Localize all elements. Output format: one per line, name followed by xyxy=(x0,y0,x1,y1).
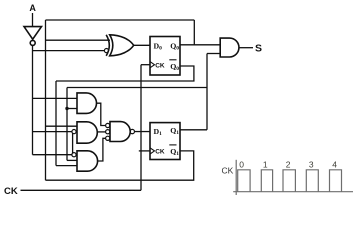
wire CK vertical bus xyxy=(140,65,142,191)
wire Q0 feedback riser xyxy=(193,20,195,45)
wire Q0bar to AND G3 bottom input xyxy=(56,165,77,167)
flip-flop U1 box xyxy=(150,37,180,76)
wire AND G3 output to NAND xyxy=(98,138,106,161)
wire bubble chain G2 to G3 xyxy=(72,133,74,154)
clock pulse 4 xyxy=(330,170,342,192)
wire to output AND lower input xyxy=(207,53,220,55)
bubble on G3 top input xyxy=(72,153,76,157)
bubble G4 input a xyxy=(106,123,110,127)
xor gate U4 xyxy=(106,35,109,56)
wire feedback to XOR upper input xyxy=(46,39,111,41)
wire to AND G2 top input xyxy=(46,125,78,127)
wire output S xyxy=(239,47,253,49)
svg-text:0: 0 xyxy=(239,160,244,170)
svg-text:Q0: Q0 xyxy=(170,62,179,72)
svg-text:Q1: Q1 xyxy=(170,147,179,157)
bubble on XOR lower input xyxy=(104,49,108,53)
wire NAND output to D1 xyxy=(135,131,150,133)
clock pulse 1 xyxy=(261,170,272,192)
wire CK to flip-flop U1 xyxy=(141,64,150,66)
svg-text:Q1: Q1 xyxy=(170,126,179,136)
svg-text:Q0: Q0 xyxy=(170,41,179,51)
timing baseline xyxy=(233,191,353,193)
wire CK to flip-flop U2 xyxy=(139,150,150,152)
wire AND G2 output to NAND xyxy=(97,131,105,133)
wire Q1 vertical bus xyxy=(66,88,68,161)
wire A input stem xyxy=(32,13,34,27)
svg-text:S: S xyxy=(255,43,262,55)
svg-text:CK: CK xyxy=(155,149,165,156)
wire Q1 vertical to output AND xyxy=(206,54,208,130)
clock triangle U1 xyxy=(150,62,155,68)
svg-text:CK: CK xyxy=(222,166,234,176)
wire Q0bar vertical bus xyxy=(55,81,57,166)
and gate G3 xyxy=(77,151,98,171)
timing axis vertical xyxy=(235,160,237,195)
wire Q0 feedback vertical bus xyxy=(45,20,47,180)
svg-text:A: A xyxy=(29,3,36,13)
clock pulse 0 xyxy=(238,170,250,192)
flip-flop U2 box xyxy=(150,123,180,160)
svg-text:CK: CK xyxy=(155,62,165,69)
svg-text:2: 2 xyxy=(286,160,291,170)
and gate G5 output S xyxy=(220,38,239,57)
wire Q1bar from flip-flop U2 xyxy=(46,151,194,180)
wire Q1 horizontal run xyxy=(67,87,207,89)
wire Abar to AND G2 bottom input xyxy=(33,131,72,133)
wire Q1 output from flip-flop U2 xyxy=(180,129,207,131)
svg-text:4: 4 xyxy=(332,160,337,170)
bubble G4 input c xyxy=(106,136,110,140)
bubble G4 input b xyxy=(106,130,110,134)
clock pulse 2 xyxy=(283,170,295,192)
svg-text:1: 1 xyxy=(263,160,268,170)
bubble G4 output xyxy=(130,129,134,133)
svg-text:CK: CK xyxy=(4,186,18,197)
wire Q0 feedback top horizontal xyxy=(46,19,195,21)
wire Abar to AND G1 top input xyxy=(33,97,78,99)
inverter U3 xyxy=(24,27,42,40)
clock pulse 3 xyxy=(306,170,318,192)
svg-text:D1: D1 xyxy=(154,127,163,137)
wire net Abar vertical bus xyxy=(32,46,34,155)
nand gate G4 xyxy=(110,122,130,142)
clock triangle U2 xyxy=(150,148,155,154)
wire XOR output to D0 xyxy=(134,44,150,46)
and gate G2 xyxy=(77,122,97,143)
wire Q1 to AND G1 bottom input xyxy=(67,108,77,110)
junction dot Q1/G1 xyxy=(65,107,68,110)
wire Q0 output to output AND upper input xyxy=(180,44,220,46)
and gate G1 xyxy=(77,93,96,114)
wire AND G1 output to NAND xyxy=(97,103,106,125)
bubble on G2 bottom input xyxy=(72,130,76,134)
wire Abar to XOR lower input xyxy=(33,50,105,52)
wire Q0bar from flip-flop U1 xyxy=(56,66,194,81)
wire CK input horizontal xyxy=(21,189,142,191)
wire Q1 to AND G3 middle input xyxy=(67,159,77,161)
svg-text:D0: D0 xyxy=(154,41,163,51)
svg-text:3: 3 xyxy=(309,160,314,170)
wire Abar to AND G3 top input xyxy=(33,154,72,156)
